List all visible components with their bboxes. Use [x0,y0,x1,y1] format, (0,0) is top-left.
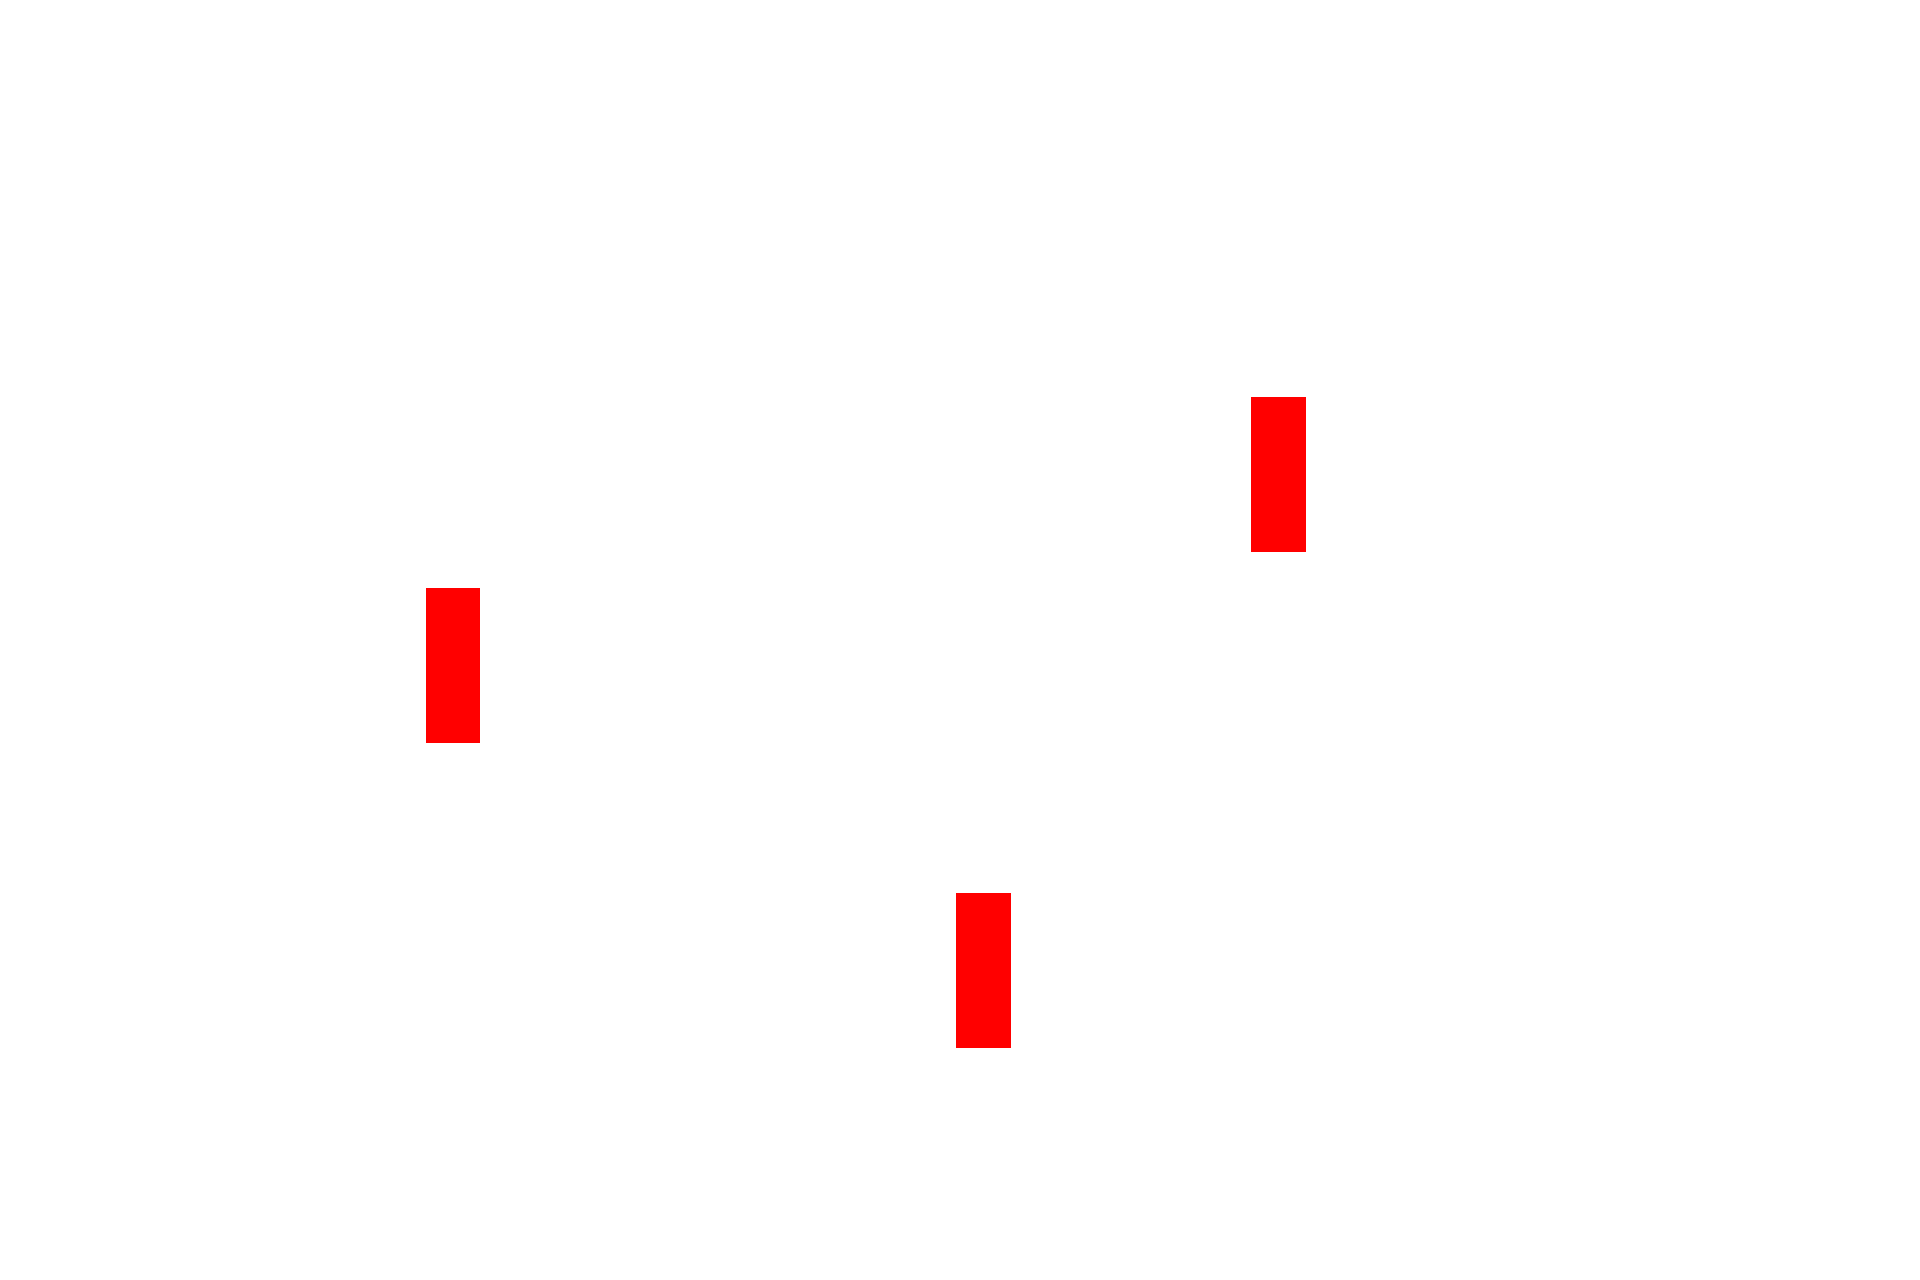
red rectangle 2 (middle left) [426,588,480,743]
red rectangle 1 (upper right) [1251,397,1306,552]
red rectangle 3 (lower center) [956,893,1011,1048]
